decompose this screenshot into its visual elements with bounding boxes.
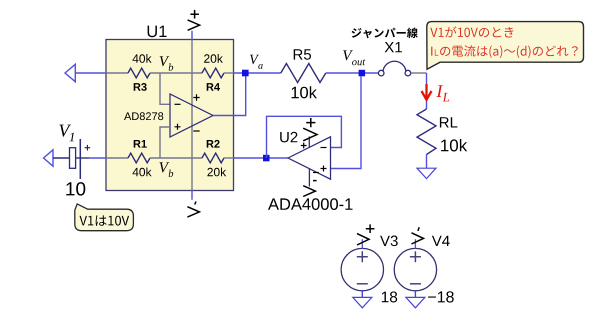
wire V4 top stub — [414, 239, 416, 248]
wire Vout down to U2 + input — [331, 76, 362, 169]
wire R4 to node Va — [224, 72, 234, 74]
net V+ symbol above V3 — [357, 224, 374, 245]
U2 power pin stubs — [308, 137, 310, 148]
callout: question (red) — [427, 22, 584, 70]
jumper X1 label — [352, 28, 418, 39]
wire op-amp U1 output to Va — [213, 73, 246, 116]
wire V3 top stub — [361, 239, 363, 248]
resistor R4 20k — [202, 68, 224, 78]
wire Vb junction to inverting input — [160, 73, 170, 104]
node Va junction — [242, 70, 249, 77]
feedback wire U2 output to - input — [267, 116, 342, 158]
net V+ symbol above U2 — [303, 118, 317, 141]
node Vb (top) — [160, 56, 174, 70]
wire RL to ground — [426, 155, 428, 169]
wire R1 to R2 — [150, 157, 202, 159]
resistor RL 10k (vertical) — [417, 109, 436, 155]
U1 block boundary (yellow region) — [106, 40, 234, 191]
wire arrow to U1 box — [75, 72, 106, 74]
voltage source V1 — [59, 125, 74, 142]
wire R5 to Vout node — [326, 72, 379, 74]
node Vout junction — [359, 70, 366, 77]
wire V- stub below U1 — [191, 191, 193, 200]
wire V1 to U1 box — [81, 157, 89, 159]
wire inside box to R1 — [106, 157, 128, 159]
resistor R1 40k — [128, 153, 150, 163]
wire V+ stub into U1 — [191, 31, 193, 40]
jumper X1 — [378, 70, 384, 76]
current arrow IL (red) — [422, 84, 432, 100]
op-amp U1 AD8278 triangle — [170, 94, 213, 137]
wire inside box to R3 — [106, 72, 128, 74]
wire V+/V- rail inside U1 — [191, 40, 193, 191]
net V- symbol (bottom) — [187, 202, 199, 218]
label U1 — [148, 26, 167, 38]
ground (V3) — [361, 290, 363, 297]
wire corner down to RL — [426, 73, 428, 109]
port arrow (bottom-left) — [44, 150, 54, 166]
wire jumper to corner — [411, 72, 427, 74]
node Vb (bottom) — [159, 162, 173, 177]
net V- symbol below U2 — [303, 181, 316, 197]
voltage source V4 — [394, 248, 436, 290]
resistor R5 10k — [281, 64, 326, 83]
resistor R3 40k — [128, 68, 150, 78]
ground (V4) — [414, 290, 416, 297]
voltage source V3 — [341, 248, 383, 290]
callout: V1 is 10V — [75, 204, 134, 231]
wire R3 to R4 — [150, 72, 202, 74]
ground (RL) — [417, 168, 436, 178]
wire Vb junction to + input — [160, 127, 170, 158]
op-amp U2 ADA4000-1 triangle — [288, 137, 331, 179]
wire R2 to U2 — [224, 157, 234, 159]
resistor R2 20k — [202, 153, 224, 163]
node U2 output junction — [263, 155, 270, 162]
port arrow (top-left input) — [65, 64, 75, 81]
net V- symbol above V4 — [412, 227, 424, 244]
net V+ symbol (top) — [188, 10, 200, 30]
